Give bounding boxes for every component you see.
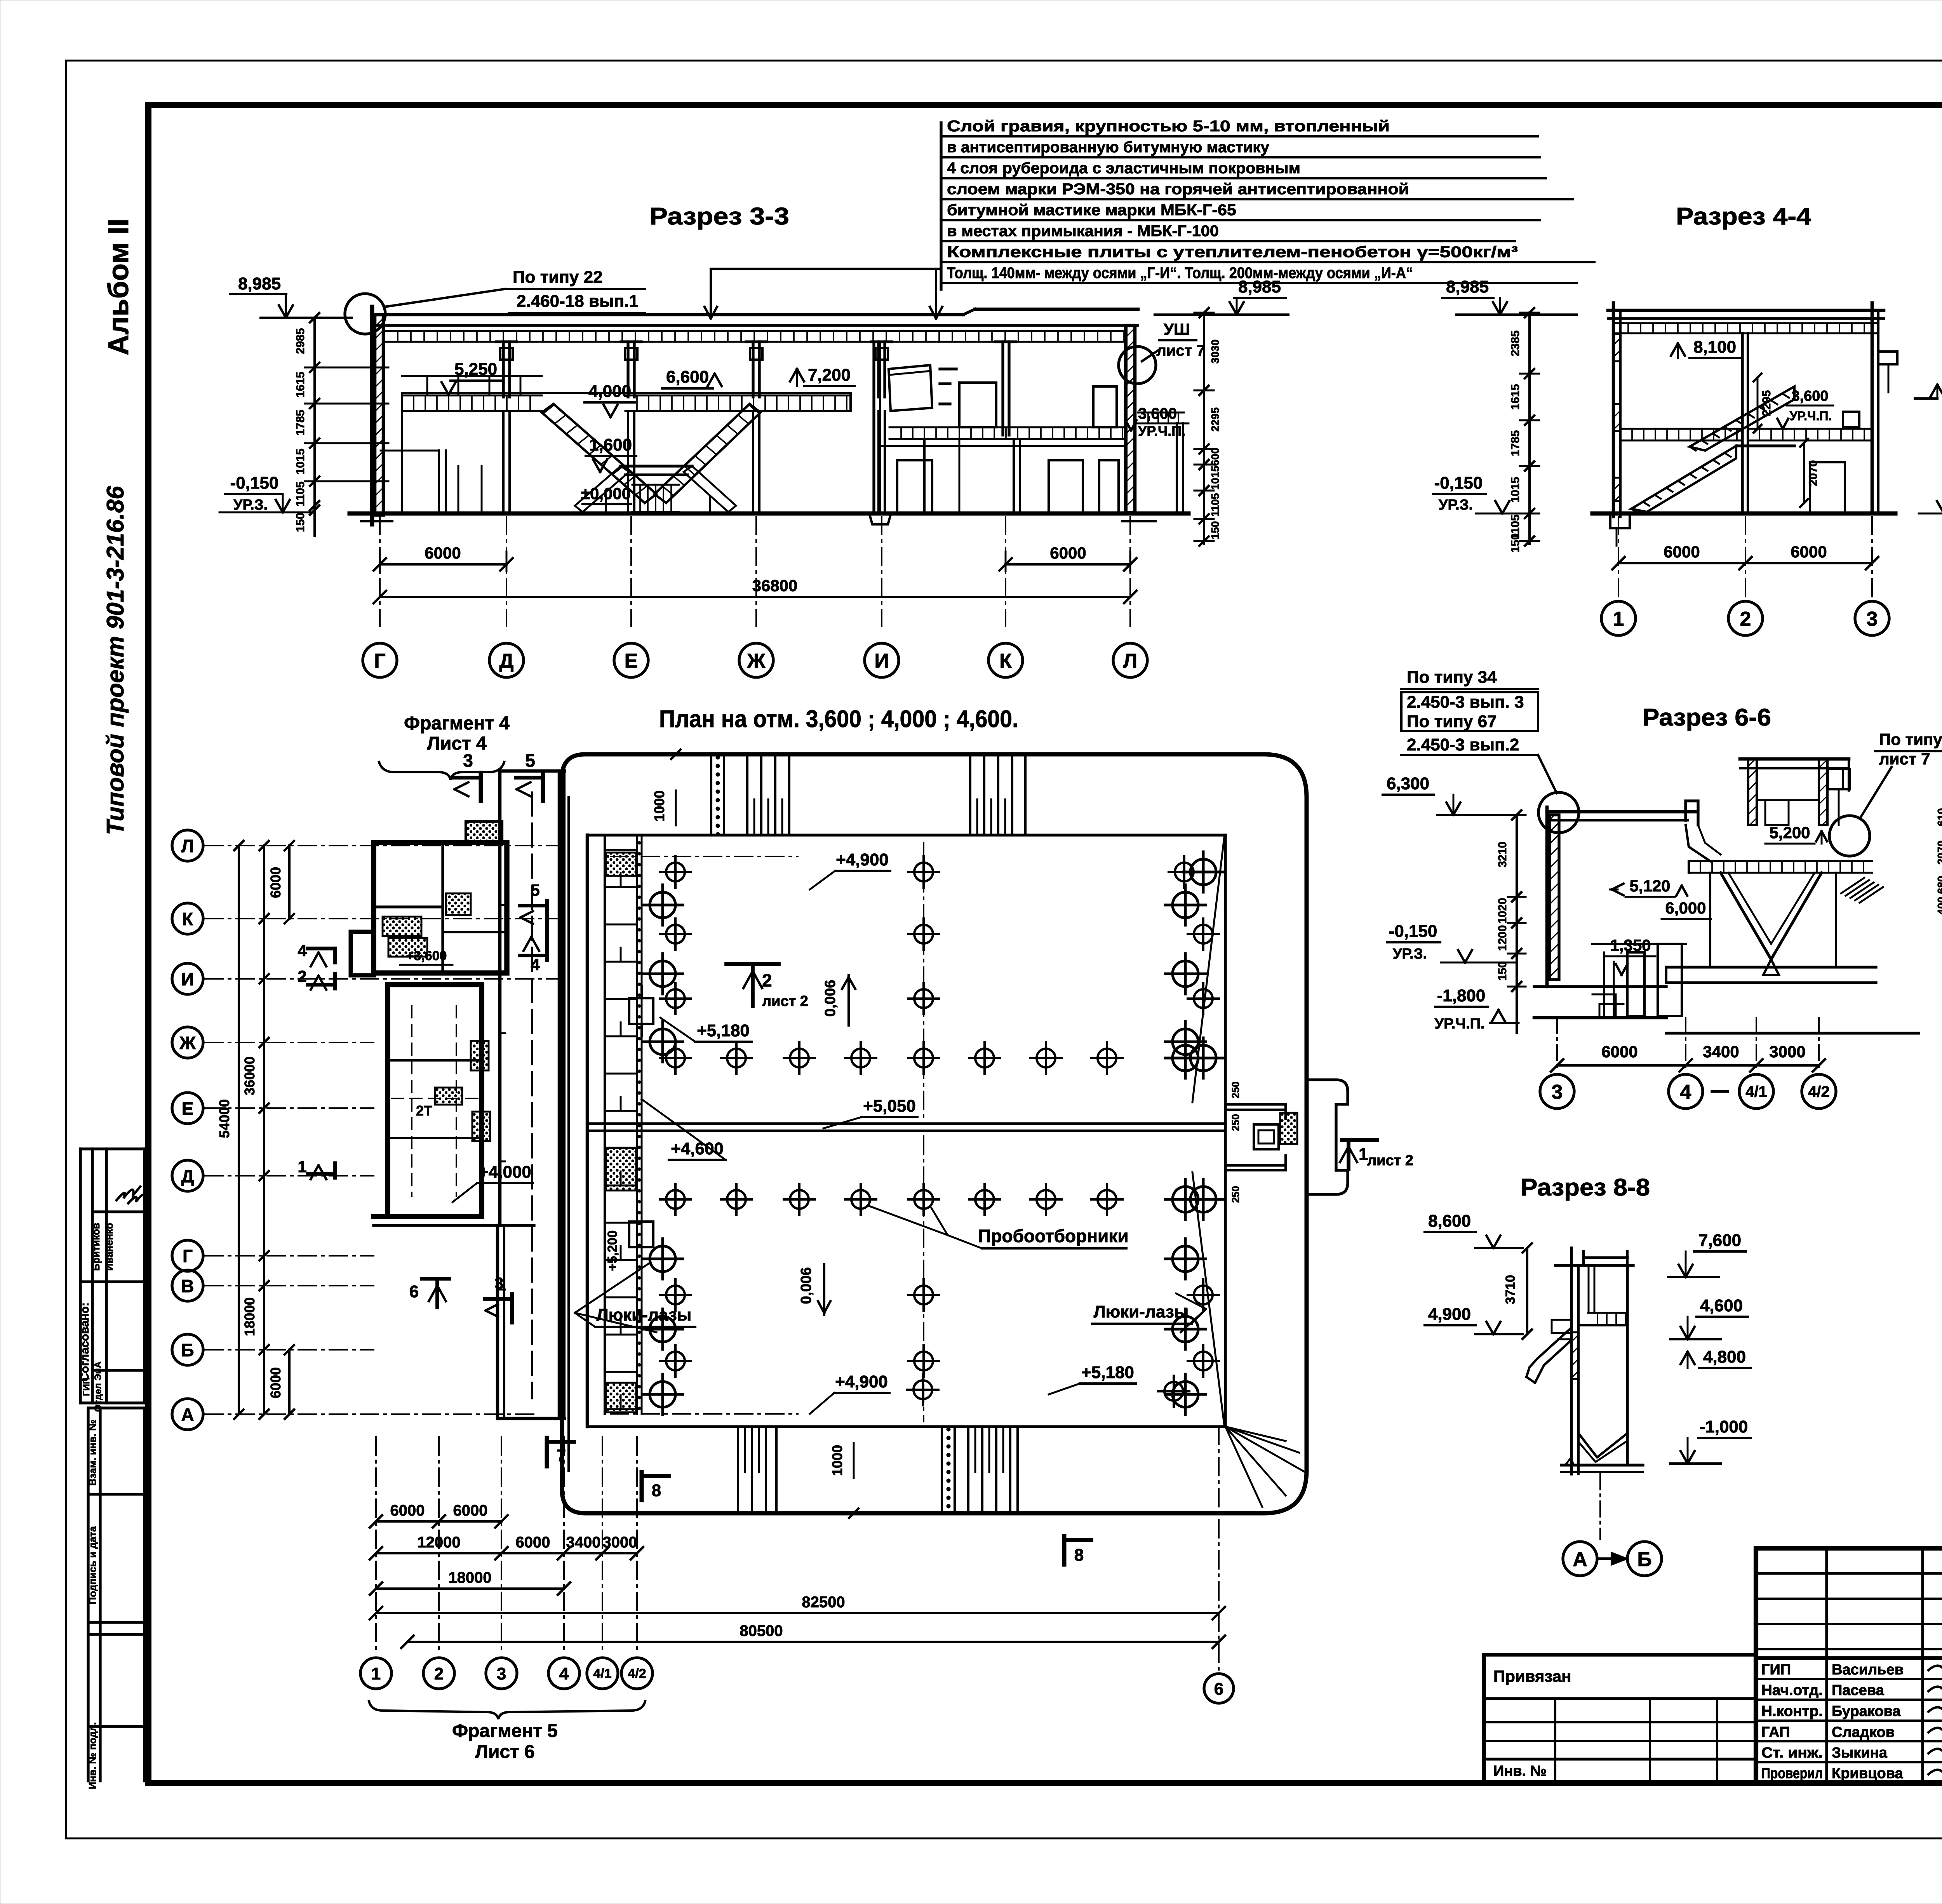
section 3-3 roof beam stubs xyxy=(496,340,517,343)
svg-text:Зыкина: Зыкина xyxy=(1832,1745,1888,1761)
title block vertical dividers left part xyxy=(1825,1548,1828,1783)
svg-text:Привязан: Привязан xyxy=(1493,1667,1571,1685)
svg-text:6000: 6000 xyxy=(1664,543,1700,561)
svg-text:Инв. № подл.: Инв. № подл. xyxy=(87,1722,98,1789)
svg-text:12000: 12000 xyxy=(417,1534,460,1551)
plan cut flag 7 xyxy=(545,1438,549,1466)
svg-text:Б: Б xyxy=(1637,1548,1651,1571)
annex room dividers xyxy=(388,1059,482,1062)
svg-text:1105: 1105 xyxy=(1209,493,1221,517)
svg-text:6000: 6000 xyxy=(1791,543,1827,561)
annex left protrusion xyxy=(351,932,374,975)
svg-text:8,985: 8,985 xyxy=(1238,277,1281,296)
svg-text:4: 4 xyxy=(298,942,307,960)
plan cut flag 5 inner xyxy=(545,901,549,929)
section 3-3 right dim chain xyxy=(1203,313,1205,544)
svg-text:Ст. инж.: Ст. инж. xyxy=(1761,1745,1823,1761)
svg-text:1,350: 1,350 xyxy=(1610,936,1651,954)
section 3-3 stair mid flights small xyxy=(575,466,629,512)
svg-text:По типу 34: По типу 34 xyxy=(1407,668,1497,687)
annex stairwell hatch mid xyxy=(383,917,421,936)
section 6-6 left wall hatched xyxy=(1550,815,1559,980)
svg-text:Пробоотборники: Пробоотборники xyxy=(978,1226,1128,1246)
section 8-8 grid bubbles А Б with arrow xyxy=(1563,1542,1597,1576)
section 6-6 callout circle left xyxy=(1538,792,1579,833)
svg-text:Типовой проект 901-3-216.86: Типовой проект 901-3-216.86 xyxy=(102,486,129,835)
svg-text:54000: 54000 xyxy=(216,1099,232,1138)
section 6-6 interior pedestal xyxy=(1599,1004,1624,1016)
svg-text:1: 1 xyxy=(298,1157,306,1176)
svg-text:ГАП: ГАП xyxy=(1761,1724,1790,1740)
svg-text:2295: 2295 xyxy=(1209,407,1221,432)
plan channel junction lower xyxy=(629,1222,653,1247)
section 4-4 grid axis drop lines xyxy=(1618,517,1619,598)
svg-text:36000: 36000 xyxy=(242,1056,258,1095)
plan dashdot line top xyxy=(611,856,798,857)
svg-text:1615: 1615 xyxy=(294,372,307,398)
svg-text:400: 400 xyxy=(1935,897,1942,915)
plan luk symbols upper basin xyxy=(660,856,691,888)
svg-text:3000: 3000 xyxy=(1769,1043,1805,1061)
plan bottom dim row 3 xyxy=(376,1587,564,1590)
svg-text:4,600: 4,600 xyxy=(1700,1296,1743,1315)
svg-text:Пасева: Пасева xyxy=(1832,1682,1885,1699)
svg-text:4,000: 4,000 xyxy=(588,382,631,401)
svg-text:Г: Г xyxy=(374,650,385,672)
svg-text:2: 2 xyxy=(762,970,772,990)
section 8-8 mid band xyxy=(1588,1312,1627,1314)
svg-text:битумной мастике марки МБК-: битумной мастике марки МБК-Г-65 xyxy=(947,202,1236,219)
section 6-6 slope hatch in tank xyxy=(1841,878,1864,893)
svg-text:680: 680 xyxy=(1935,876,1942,894)
svg-text:1: 1 xyxy=(1613,608,1624,630)
section 3-3 left dim chain xyxy=(313,318,316,536)
svg-text:А: А xyxy=(1573,1548,1587,1571)
svg-text:250: 250 xyxy=(1230,1114,1241,1131)
section 8-8 base plate xyxy=(1561,1464,1643,1466)
section 4-4 foundation pad xyxy=(1610,513,1630,528)
section 3-3 grid axis drop lines xyxy=(379,517,381,626)
svg-text:5,120: 5,120 xyxy=(1629,877,1670,895)
svg-text:±0,000: ±0,000 xyxy=(581,484,631,503)
svg-text:в антисептированную битумную: в антисептированную битумную мастику xyxy=(947,139,1270,156)
svg-text:По типу 67: По типу 67 xyxy=(1407,712,1497,731)
plan left distribution channel strip xyxy=(604,835,606,1414)
title block staff rows xyxy=(1756,1678,1942,1680)
section 3-3 callout circle at Л xyxy=(1119,346,1156,384)
svg-text:+5,050: +5,050 xyxy=(863,1096,916,1116)
plan left vertical dim chains xyxy=(238,846,240,1414)
svg-text:+5,180: +5,180 xyxy=(697,1021,750,1040)
section 4-4 left wall axis 1 xyxy=(1612,303,1615,517)
svg-text:3: 3 xyxy=(497,1664,506,1683)
plan basin centerline vertical lower xyxy=(923,1136,924,1422)
svg-text:3,600: 3,600 xyxy=(1791,388,1828,404)
svg-text:По типу 1: По типу 1 xyxy=(1879,730,1942,748)
section 4-4 left dim chain xyxy=(1528,313,1531,544)
section 6-6 transition throat xyxy=(1686,825,1710,861)
section 3-3 right block partition axis И area xyxy=(872,342,875,513)
svg-text:Взам. инв. №: Взам. инв. № xyxy=(87,1420,98,1486)
plan cut flag 8 right xyxy=(1062,1536,1067,1565)
svg-text:5,200: 5,200 xyxy=(1769,823,1810,842)
section 8-8 axis drop line xyxy=(1599,1474,1601,1539)
section 4-4 right wall axis 3 xyxy=(1871,303,1874,513)
section 4-4 canopy right xyxy=(1878,350,1897,353)
svg-text:4 слоя рубероида с эластичны: 4 слоя рубероида с эластичным покровным xyxy=(947,160,1300,177)
plan fragment 4 brace xyxy=(379,762,504,780)
svg-text:1,600: 1,600 xyxy=(589,435,632,454)
svg-text:150: 150 xyxy=(1509,533,1522,553)
svg-text:Васильев: Васильев xyxy=(1832,1662,1904,1678)
svg-text:Л: Л xyxy=(1123,650,1138,672)
svg-text:250: 250 xyxy=(1230,1081,1241,1098)
svg-text:6000: 6000 xyxy=(425,544,461,562)
svg-text:Подпись и дата: Подпись и дата xyxy=(87,1526,98,1605)
svg-text:УР.Ч.П.: УР.Ч.П. xyxy=(1790,409,1832,423)
plan basin mid divider xyxy=(587,1122,1225,1125)
svg-text:4: 4 xyxy=(1680,1081,1691,1103)
plan notch hatched block xyxy=(1280,1113,1297,1144)
svg-text:ГИП: ГИП xyxy=(81,1377,92,1396)
svg-text:250: 250 xyxy=(1230,1186,1241,1203)
svg-text:Толщ. 140мм- между осями „Г-И“: Толщ. 140мм- между осями „Г-И“. Толщ. 20… xyxy=(947,265,1413,282)
svg-text:Иваненко: Иваненко xyxy=(103,1223,115,1270)
svg-text:Комплексные плиты с утеплит: Комплексные плиты с утеплителем-пенобето… xyxy=(947,244,1518,261)
svg-text:82500: 82500 xyxy=(802,1594,845,1611)
section 6-6 tank bottom xyxy=(1666,966,1876,968)
svg-text:Проверил: Проверил xyxy=(1761,1765,1823,1782)
svg-text:Кривцова: Кривцова xyxy=(1832,1765,1904,1782)
svg-text:УШ: УШ xyxy=(1164,320,1190,338)
svg-text:К: К xyxy=(182,909,193,929)
svg-text:2.450-3 вып. 3: 2.450-3 вып. 3 xyxy=(1407,693,1524,712)
annex outer walls upper block xyxy=(374,842,507,973)
svg-text:18000: 18000 xyxy=(448,1569,491,1586)
svg-text:6000: 6000 xyxy=(1050,544,1086,562)
plan channel junction upper xyxy=(629,998,653,1024)
plan inner basin rectangle xyxy=(586,835,589,1427)
section 4-4 roof slab xyxy=(1608,309,1884,312)
svg-text:УР.З.: УР.З. xyxy=(233,497,268,513)
section 3-3 callout circle type 22 xyxy=(345,294,385,334)
section 8-8 bracket left xyxy=(1526,1328,1571,1377)
section 6-6 crane bracket xyxy=(1828,769,1850,789)
svg-text:1615: 1615 xyxy=(1509,384,1522,410)
svg-text:8: 8 xyxy=(1074,1545,1084,1565)
svg-text:2070: 2070 xyxy=(1935,841,1942,865)
svg-text:6: 6 xyxy=(409,1282,419,1301)
svg-text:Ж: Ж xyxy=(747,650,766,672)
section 6-6 axis drop lines xyxy=(1556,1018,1558,1069)
svg-text:Фрагмент 4: Фрагмент 4 xyxy=(404,713,510,734)
plan outer basin wall rounded xyxy=(562,754,1307,1513)
section 3-3 under-stair hatch xyxy=(632,484,679,486)
svg-text:4,800: 4,800 xyxy=(1703,1347,1746,1366)
svg-text:Отдел ЭиА: Отдел ЭиА xyxy=(93,1361,103,1412)
svg-text:А: А xyxy=(181,1405,194,1425)
svg-text:Ж: Ж xyxy=(179,1033,196,1053)
svg-text:И: И xyxy=(181,969,194,989)
svg-text:-0,150: -0,150 xyxy=(1389,922,1437,941)
plan bottom dim 82500 xyxy=(376,1612,1219,1614)
section 3-3 canopy right of Л xyxy=(1138,412,1184,414)
svg-text:4,900: 4,900 xyxy=(1428,1305,1471,1324)
plan bottom axis dash-dot lines xyxy=(375,1437,377,1655)
svg-text:-1,000: -1,000 xyxy=(1700,1417,1748,1436)
svg-text:6: 6 xyxy=(1214,1679,1223,1699)
section 4-4 dimension rows xyxy=(1618,562,1745,564)
plan luk symbols lower basin xyxy=(660,1184,691,1215)
plan label Фрагмент 5 Лист 6 brace xyxy=(369,1701,645,1719)
svg-text:лист 2: лист 2 xyxy=(762,993,808,1009)
section 3-3 grid bubbles xyxy=(363,643,397,677)
svg-text:в местах примыкания - МБК-Г-1: в местах примыкания - МБК-Г-100 xyxy=(947,223,1219,240)
section 6-6 left building interior equipment xyxy=(1592,943,1686,945)
svg-text:6,000: 6,000 xyxy=(1665,899,1706,917)
section 6-6 callout circle right xyxy=(1829,816,1870,856)
title block upper-left empty rows xyxy=(1756,1572,1942,1575)
section 3-3 foundation marks xyxy=(869,513,891,524)
svg-text:8,100: 8,100 xyxy=(1693,338,1736,357)
svg-text:3400: 3400 xyxy=(1703,1043,1739,1061)
section 8-8 dim 3710 xyxy=(1526,1248,1528,1334)
plan cut flag 8 bottom xyxy=(640,1472,644,1500)
svg-text:Н.контр.: Н.контр. xyxy=(1761,1703,1823,1720)
section 6-6 pavilion interior xyxy=(1757,799,1819,801)
plan bottom dim 80500 xyxy=(407,1641,1219,1643)
svg-text:6000: 6000 xyxy=(390,1502,425,1519)
svg-text:150: 150 xyxy=(1209,521,1221,540)
section 8-8 left wall xyxy=(1570,1265,1573,1474)
svg-text:1020: 1020 xyxy=(1496,898,1509,924)
svg-text:5,250: 5,250 xyxy=(454,360,497,379)
svg-text:3210: 3210 xyxy=(1496,842,1509,868)
svg-text:Нач.отд.: Нач.отд. xyxy=(1761,1682,1823,1699)
section 3-3 left wall axis Г xyxy=(375,315,383,515)
svg-text:4: 4 xyxy=(531,955,540,974)
svg-text:лист 2: лист 2 xyxy=(1367,1152,1413,1169)
svg-text:+4,000: +4,000 xyxy=(479,1163,531,1182)
svg-text:Разрез 6-6: Разрез 6-6 xyxy=(1643,704,1771,731)
svg-text:3400: 3400 xyxy=(566,1534,601,1551)
section 3-3 columns xyxy=(502,342,505,397)
section 4-4 landing line xyxy=(1736,444,1794,447)
spec note leader to roof xyxy=(711,268,941,270)
section 6-6 tank deck slab xyxy=(1689,860,1872,862)
section 4-4 dim 2295 at axis 2 xyxy=(1757,378,1759,429)
svg-text:4/2: 4/2 xyxy=(1808,1083,1830,1100)
svg-text:6000: 6000 xyxy=(268,1367,284,1398)
svg-text:2070: 2070 xyxy=(1807,460,1820,486)
plan luk row upper basin bottom xyxy=(660,1043,691,1074)
section 6-6 grid bubbles xyxy=(1540,1074,1574,1109)
svg-text:лист 7: лист 7 xyxy=(1156,342,1205,359)
title block left sub-table Привязан xyxy=(1484,1655,1756,1782)
svg-text:По типу 22: По типу 22 xyxy=(513,268,603,287)
annex bottom wall xyxy=(374,1214,482,1219)
svg-text:2: 2 xyxy=(298,967,306,985)
svg-text:Согласовано:: Согласовано: xyxy=(78,1302,91,1382)
svg-text:6000: 6000 xyxy=(516,1534,550,1551)
svg-text:3: 3 xyxy=(494,1274,503,1292)
title block main frame xyxy=(1756,1548,1942,1783)
section 3-3 lower door frames xyxy=(458,466,459,513)
svg-text:4/1: 4/1 xyxy=(1745,1083,1767,1100)
section 6-6 pavilion right xyxy=(1748,759,1757,825)
svg-text:Б: Б xyxy=(181,1340,194,1360)
plan cut flag 3 top xyxy=(479,773,483,801)
plan basin corner taper diagonals xyxy=(1192,837,1224,1102)
svg-text:3: 3 xyxy=(463,750,473,771)
svg-text:3: 3 xyxy=(1552,1081,1563,1103)
svg-text:+4,600: +4,600 xyxy=(671,1139,724,1158)
section 3-3 ground floor walls left hall xyxy=(438,451,440,513)
svg-text:7,600: 7,600 xyxy=(1698,1231,1741,1250)
svg-text:Д: Д xyxy=(181,1166,194,1186)
plan notch box xyxy=(1254,1124,1279,1149)
svg-text:УР.З.: УР.З. xyxy=(1439,497,1473,513)
sidebar signatures xyxy=(117,1187,140,1200)
section 3-3 stair flight upper-left xyxy=(542,404,656,503)
svg-text:Разрез 3-3: Разрез 3-3 xyxy=(649,203,789,230)
svg-text:-0,150: -0,150 xyxy=(230,473,279,493)
section 3-3 right wall axis Л xyxy=(1126,325,1135,513)
plan bottom ladder dotted column xyxy=(941,1427,943,1513)
svg-text:Д: Д xyxy=(499,650,513,672)
svg-text:3030: 3030 xyxy=(1209,339,1221,364)
plan row grid bubbles xyxy=(172,830,203,861)
svg-text:В: В xyxy=(181,1276,194,1296)
section 8-8 inner lines xyxy=(1588,1265,1590,1313)
svg-text:Буракова: Буракова xyxy=(1832,1703,1901,1720)
plan bubble 6 xyxy=(1204,1674,1234,1703)
svg-text:2Т: 2Т xyxy=(416,1103,432,1119)
section 3-3 parapet rails upper floor xyxy=(402,375,405,377)
plan channel dotted ladder dots xyxy=(638,841,641,844)
section 3-3 roof slab xyxy=(375,313,963,317)
svg-text:150: 150 xyxy=(1496,961,1509,981)
svg-text:1200: 1200 xyxy=(1496,925,1509,951)
svg-text:0,006: 0,006 xyxy=(822,980,839,1016)
svg-text:+4,900: +4,900 xyxy=(835,1372,888,1391)
plan cut flag 4 inner xyxy=(545,932,549,960)
section 8-8 funnel bottom xyxy=(1578,1433,1627,1457)
annex big room block xyxy=(388,985,482,1217)
svg-text:+5,180: +5,180 xyxy=(1081,1363,1134,1382)
svg-text:1: 1 xyxy=(371,1664,381,1683)
section 3-3 lower rooms right xyxy=(897,460,932,513)
plan dashdot line bottom xyxy=(611,1413,798,1415)
plan outer basin wall inner line left xyxy=(567,797,570,1471)
section 3-3 dimension row 6000 xyxy=(380,563,506,566)
svg-text:4/1: 4/1 xyxy=(593,1666,611,1681)
svg-text:610: 610 xyxy=(1935,808,1942,827)
svg-text:УР.Ч.П.: УР.Ч.П. xyxy=(1138,423,1185,439)
section 6-6 roof left building xyxy=(1547,810,1697,814)
svg-text:3: 3 xyxy=(1867,608,1878,630)
plan cut flag 1 лист 2 right xyxy=(1342,1138,1377,1142)
section 6-6 bottom dim row xyxy=(1557,1064,1819,1067)
section 3-3 ground line xyxy=(350,512,1189,516)
svg-text:3,600: 3,600 xyxy=(1138,405,1177,422)
svg-text:Разрез 8-8: Разрез 8-8 xyxy=(1521,1174,1650,1201)
svg-text:18000: 18000 xyxy=(242,1297,258,1336)
svg-text:1785: 1785 xyxy=(1509,430,1522,456)
svg-text:2295: 2295 xyxy=(1760,390,1773,416)
annex stair hatch top xyxy=(466,821,502,842)
svg-text:+4,900: +4,900 xyxy=(836,850,889,869)
svg-text:1015: 1015 xyxy=(294,449,307,475)
section 3-3 equipment on slab xyxy=(959,383,996,427)
annex stair hatch in rooms xyxy=(435,1088,462,1105)
plan cut flag 6 xyxy=(422,1277,449,1281)
svg-text:6000: 6000 xyxy=(268,867,284,898)
section 6-6 ground slab left xyxy=(1534,985,1666,988)
svg-text:150: 150 xyxy=(294,513,307,532)
svg-text:2.450-3 вып.2: 2.450-3 вып.2 xyxy=(1407,735,1519,754)
svg-text:0,006: 0,006 xyxy=(798,1267,814,1304)
svg-text:7,200: 7,200 xyxy=(808,365,851,385)
svg-text:Е: Е xyxy=(182,1098,194,1119)
section 4-4 floor slab xyxy=(1620,428,1742,430)
svg-text:Слой гравия, крупностью 5-10 м: Слой гравия, крупностью 5-10 мм, втоплен… xyxy=(947,118,1390,135)
sidebar vertical title: Типовой проект 901-3-216.86 xyxy=(102,486,129,835)
svg-text:1: 1 xyxy=(1359,1145,1368,1164)
plan cut mark 2 лист 2 xyxy=(726,962,779,966)
svg-text:Разрез 4-4: Разрез 4-4 xyxy=(1676,203,1811,230)
section 8-8 top cap xyxy=(1556,1264,1633,1267)
svg-text:4/2: 4/2 xyxy=(628,1666,646,1681)
section 3-3 right upper room slab УРЧП 3600 xyxy=(889,426,1126,428)
svg-text:Люки-лазы: Люки-лазы xyxy=(1094,1302,1189,1321)
svg-text:Сладков: Сладков xyxy=(1832,1724,1895,1740)
annex gallery strip walls xyxy=(498,771,502,1225)
svg-text:5: 5 xyxy=(531,881,539,899)
section 6-6 left dim chain xyxy=(1516,815,1518,1033)
svg-text:2985: 2985 xyxy=(294,328,307,354)
section 4-4 ground line xyxy=(1592,512,1895,516)
title block thick row line xyxy=(1756,1656,1942,1660)
plan channel hatched cells xyxy=(606,1148,636,1190)
svg-text:План на отм. 3,600 ; 4,000 ;: План на отм. 3,600 ; 4,000 ; 4,600. xyxy=(659,706,1018,733)
svg-text:1785: 1785 xyxy=(294,410,307,436)
plan top ladder dotted column xyxy=(710,754,712,835)
svg-text:6000: 6000 xyxy=(1601,1043,1637,1061)
svg-text:8,985: 8,985 xyxy=(1446,277,1489,296)
svg-text:Альбом II: Альбом II xyxy=(102,219,134,355)
section 3-3 upper floor slab xyxy=(402,392,851,394)
svg-text:1105: 1105 xyxy=(294,481,307,506)
section 3-3 right part inner walls xyxy=(959,439,961,513)
section 3-3 landing xyxy=(621,465,692,467)
svg-text:слоем марки РЭМ-350 на горячей: слоем марки РЭМ-350 на горячей антисепти… xyxy=(947,181,1409,198)
section 6-6 funnel xyxy=(1721,873,1822,959)
svg-text:2385: 2385 xyxy=(1509,331,1522,357)
svg-text:Инв. №: Инв. № xyxy=(1493,1763,1547,1779)
plan corner slope fan xyxy=(1225,1427,1286,1441)
section 8-8 right wall xyxy=(1626,1265,1629,1464)
annex gallery door ticks xyxy=(559,889,564,891)
svg-text:+5,200: +5,200 xyxy=(605,1230,620,1271)
svg-text:УР.З.: УР.З. xyxy=(1393,946,1427,962)
svg-text:6,300: 6,300 xyxy=(1387,774,1429,793)
svg-text:80500: 80500 xyxy=(740,1622,783,1639)
plan bottom dim row 2 xyxy=(376,1552,637,1554)
section 4-4 dim 2070 xyxy=(1803,443,1805,503)
svg-text:+3,600: +3,600 xyxy=(406,949,447,963)
annex upper interior walls xyxy=(441,842,444,973)
